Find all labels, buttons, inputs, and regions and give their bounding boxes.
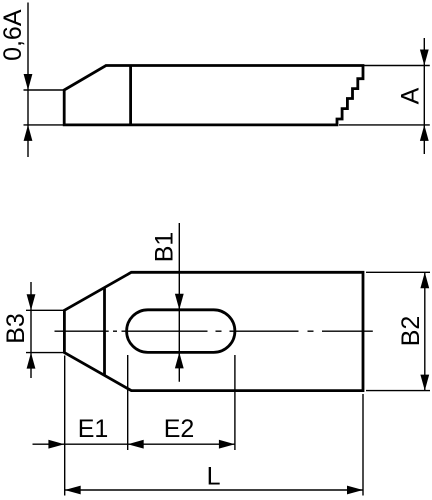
- dimension B2 arrow up: [420, 272, 429, 288]
- extension line slot left edge (for E1/E2): [127, 355, 129, 450]
- side view internal edge line (end of nose chamfer): [129, 66, 132, 125]
- dimension E1/E2 dimension line: [33, 443, 235, 445]
- dimension B1 arrow up: [175, 352, 184, 368]
- dimension B3 arrow up: [27, 353, 36, 369]
- dimension B3 arrow down: [27, 294, 36, 310]
- dimension 0,6A extension line bottom: [24, 124, 65, 126]
- dimension B2 arrow down: [420, 375, 429, 391]
- dimension A dimension line: [423, 38, 425, 154]
- extension line left (nose tip, for E1 and L): [64, 356, 66, 496]
- dimension B2 dimension line: [424, 272, 426, 390]
- dimension B2 extension line top: [366, 271, 430, 273]
- svg-text:B3: B3: [2, 313, 30, 344]
- side view outline with serrated step end: [64, 66, 363, 125]
- dimension 0,6A extension line top: [24, 89, 65, 91]
- dimension E1 outside arrow pointing right: [48, 440, 64, 449]
- svg-text:0,6A: 0,6A: [0, 9, 27, 61]
- dimension A arrow up: [420, 125, 429, 141]
- plan view internal edge line (chamfer edge): [103, 288, 106, 376]
- dimension L arrow pointing right: [347, 486, 363, 495]
- dimension B3 dimension line: [30, 282, 32, 378]
- svg-text:B1: B1: [150, 232, 178, 263]
- svg-text:E1: E1: [78, 415, 109, 443]
- extension line body right corner (for L): [362, 394, 364, 496]
- plan view outline (tapered nose + rectangular body): [64, 272, 363, 390]
- dimension A extension line top: [363, 65, 430, 67]
- dimension L arrow pointing left: [65, 486, 81, 495]
- svg-text:A: A: [397, 87, 425, 104]
- dimension E2 arrow pointing right: [219, 440, 235, 449]
- dimension 0,6A arrow up: [24, 125, 33, 141]
- dimension A extension line bottom: [339, 124, 430, 126]
- svg-text:B2: B2: [397, 316, 425, 347]
- dimension B2 extension line bottom: [366, 390, 430, 392]
- dimension B3 extension line bottom: [26, 352, 64, 354]
- extension line slot right edge (for E2): [234, 355, 236, 450]
- svg-text:L: L: [207, 463, 221, 491]
- dimension E2 arrow pointing left: [128, 440, 144, 449]
- slot (elongated hole): [127, 310, 235, 353]
- dimension 0,6A arrow down: [24, 74, 33, 90]
- dimension 0,6A dimension line: [27, 3, 29, 158]
- dimension L dimension line: [65, 489, 363, 491]
- centerline (dash-dot axis): [55, 330, 373, 332]
- svg-text:E2: E2: [164, 415, 195, 443]
- dimension B1 dimension line: [178, 223, 180, 382]
- dimension A arrow down: [420, 50, 429, 66]
- dimension B1 arrow down: [175, 294, 184, 310]
- dimension B3 extension line top: [26, 309, 64, 311]
